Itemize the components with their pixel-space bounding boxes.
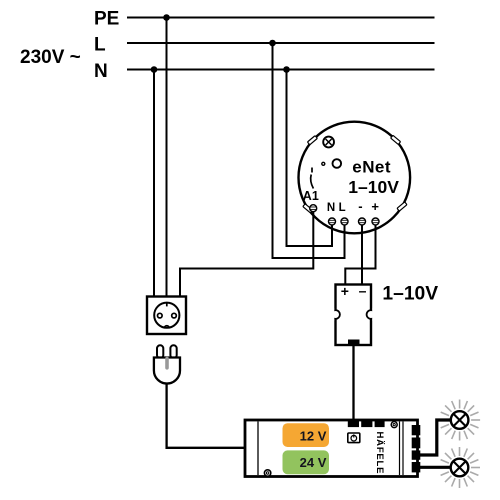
- svg-text:-: -: [358, 199, 362, 214]
- svg-text:A1: A1: [303, 189, 319, 203]
- actuator relay contact symbol: [311, 168, 314, 189]
- svg-text:–: –: [359, 283, 367, 299]
- wire PE drop to socket: [166, 18, 168, 298]
- actuator mounting screw: [323, 137, 334, 148]
- bus N: [127, 69, 435, 71]
- terminal N screw: [329, 218, 336, 225]
- wire N drop to actuator N: [287, 70, 333, 247]
- socket outlet X1: [147, 297, 186, 335]
- driver output tab 2: [412, 438, 421, 449]
- svg-text:1–10V: 1–10V: [348, 177, 399, 197]
- svg-text:HÄFELE: HÄFELE: [374, 432, 385, 475]
- wire driver to lamp E1: [420, 420, 451, 455]
- svg-text:eNet: eNet: [352, 158, 391, 177]
- wire N drop to socket: [153, 70, 155, 298]
- actuator button circle: [333, 159, 342, 168]
- svg-text:N: N: [94, 61, 108, 82]
- svg-text:+: +: [341, 283, 349, 299]
- junction PE to socket earth: [163, 14, 170, 21]
- actuator LED dot: [322, 162, 325, 165]
- driver U2 Haefele power supply: [245, 420, 418, 477]
- driver output tab 4: [412, 462, 421, 472]
- actuator claw slot SW: [303, 204, 313, 213]
- converter output connector: [348, 340, 360, 347]
- converter notch left: [329, 309, 340, 321]
- wire L drop to actuator L: [273, 43, 345, 258]
- junction N to actuator: [283, 66, 290, 73]
- driver input connector 1: [348, 419, 359, 427]
- wire converter to driver: [352, 346, 354, 421]
- terminal L screw: [341, 218, 348, 225]
- bus PE: [127, 17, 435, 19]
- converter T1 1-10V box: [336, 285, 372, 346]
- lamp E1: [441, 400, 480, 441]
- actuator U1 eNet 1-10V body: [299, 122, 411, 234]
- svg-text:+: +: [371, 199, 379, 214]
- svg-text:L: L: [339, 202, 346, 214]
- bus L: [127, 42, 435, 44]
- svg-text:N: N: [327, 202, 335, 214]
- actuator claw slot SE: [397, 202, 407, 211]
- wire A1 switched line to socket: [180, 210, 313, 297]
- actuator claw slot NW: [307, 136, 317, 145]
- driver 24V badge: [283, 450, 330, 474]
- svg-text:230V ~: 230V ~: [20, 47, 81, 68]
- driver screw top right: [391, 422, 397, 428]
- driver output tab 1: [412, 425, 421, 435]
- driver input connector 3: [375, 419, 385, 427]
- driver input connector 2: [361, 419, 372, 427]
- terminal minus screw: [359, 218, 366, 225]
- driver 12V badge: [283, 423, 330, 447]
- svg-text:1–10V: 1–10V: [382, 284, 438, 305]
- wire driver to lamp E2: [420, 466, 451, 469]
- svg-text:24 V: 24 V: [300, 455, 327, 470]
- driver output tab 3: [412, 450, 421, 459]
- junction L to actuator: [269, 40, 276, 47]
- actuator claw slot NE: [391, 135, 401, 144]
- junction N to socket: [151, 66, 158, 73]
- svg-text:12 V: 12 V: [300, 428, 327, 443]
- driver screw bottom left: [264, 470, 270, 476]
- lamp E2: [441, 447, 480, 488]
- wire actuator minus to converter: [361, 224, 363, 285]
- svg-text:PE: PE: [94, 9, 119, 30]
- converter notch right: [367, 309, 378, 321]
- wire plug cable to driver: [167, 384, 245, 448]
- wire actuator plus to converter: [345, 224, 375, 285]
- svg-text:L: L: [94, 35, 106, 56]
- terminal plus screw: [372, 218, 379, 225]
- terminal A1 screw: [310, 205, 317, 212]
- driver power button: [348, 433, 360, 443]
- plug P1: [154, 345, 180, 383]
